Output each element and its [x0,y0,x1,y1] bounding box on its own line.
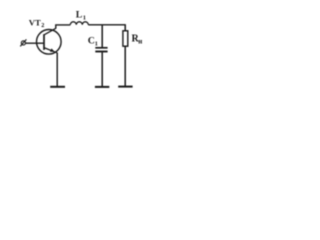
transistor VT2 circle [37,30,62,55]
emitter wire down [56,53,58,87]
capacitor C1 top plate [95,47,107,49]
svg-text:1: 1 [95,40,98,47]
svg-text:2: 2 [41,22,44,29]
capacitor C1 bottom plate [95,51,107,53]
capacitor top lead [101,25,103,47]
label C1 [88,35,98,47]
capacitor bottom lead [101,52,103,86]
input terminal [21,41,25,45]
svg-text:1: 1 [83,15,86,22]
svg-text:VT: VT [29,17,41,27]
resistor Rn box [123,31,128,46]
collector riser wire [56,25,71,29]
ground (resistor) [118,86,132,88]
inductor L1 [70,22,88,25]
label VT2 [29,17,44,29]
transistor base bar [43,34,45,50]
ground (emitter) [50,86,65,88]
svg-text:L: L [76,10,83,21]
terminal slash [20,39,26,46]
transistor collector diagonal [44,28,56,35]
resistor bottom lead [124,46,126,86]
transistor emitter diagonal [44,48,57,53]
wire terminal to base [26,42,45,44]
label L1 [76,10,86,22]
label Rn [132,33,143,45]
top wire inductor to resistor corner [88,24,125,26]
svg-text:н: н [138,37,142,45]
ground (capacitor) [95,86,109,88]
resistor top lead [124,24,126,30]
emitter arrowhead [50,48,55,52]
